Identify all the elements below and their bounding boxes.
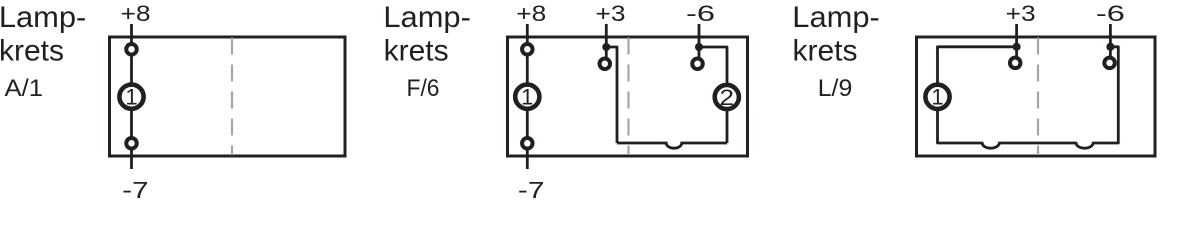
wire lamp 2 bottom riser: [726, 111, 729, 144]
svg-text:+3: +3: [596, 1, 626, 26]
wire +8 to -7 vertical: [526, 24, 529, 169]
svg-text:krets: krets: [793, 35, 858, 68]
svg-text:-7: -7: [122, 177, 149, 203]
lamp 1 (circuit A/1): [119, 85, 143, 110]
junction dot +3: [1013, 43, 1021, 51]
terminal ring -7: [522, 138, 533, 149]
wire lamp 1 loop top (to +3 dot): [938, 47, 1017, 84]
wire +3 to lamp 2 (down leg): [606, 47, 617, 143]
terminal ring +3: [1010, 58, 1021, 69]
box outline (circuit board A/1): [110, 37, 346, 156]
svg-text:Lamp-: Lamp-: [792, 1, 880, 34]
svg-text:krets: krets: [384, 35, 449, 68]
junction dot -6: [695, 43, 703, 51]
lamp 2 (circuit F/6): [715, 85, 739, 110]
terminal ring +3: [600, 59, 611, 70]
svg-text:2: 2: [720, 85, 735, 110]
svg-text:krets: krets: [0, 35, 64, 68]
wire -6 stub: [698, 24, 701, 58]
svg-text:F/6: F/6: [407, 75, 440, 102]
dashed divider (board L/9 midline): [1037, 38, 1039, 156]
svg-text:+3: +3: [1006, 1, 1036, 26]
lamp 1 (circuit F/6): [515, 85, 539, 110]
junction dot +3: [602, 43, 610, 51]
svg-text:1: 1: [125, 85, 137, 110]
terminal ring -7: [126, 138, 137, 149]
svg-text:+8: +8: [516, 1, 546, 26]
wire -6 stub: [1109, 24, 1112, 57]
wire +3 stub: [1015, 24, 1018, 57]
wire -6 to lamp 2 top: [699, 47, 727, 84]
junction dot -6: [1106, 43, 1114, 51]
box outline (circuit board F/6): [508, 37, 748, 156]
svg-text:L/9: L/9: [818, 75, 853, 102]
svg-text:Lamp-: Lamp-: [0, 1, 86, 34]
wire bottom run with dip: [617, 143, 727, 148]
svg-text:A/1: A/1: [5, 75, 44, 102]
terminal ring -6: [1104, 58, 1115, 69]
dashed divider (board A/1 midline): [231, 38, 233, 156]
terminal ring +8: [126, 44, 137, 55]
svg-text:1: 1: [931, 85, 943, 110]
svg-text:-7: -7: [518, 177, 545, 203]
wire +3 stub: [605, 24, 608, 58]
svg-text:Lamp-: Lamp-: [383, 1, 471, 34]
svg-text:1: 1: [521, 85, 533, 110]
box outline (circuit board L/9): [917, 37, 1156, 156]
wire +8 to -7 vertical: [130, 24, 133, 169]
svg-text:+8: +8: [121, 1, 151, 26]
terminal ring -6: [692, 59, 703, 70]
lamp 1 (circuit L/9): [925, 85, 949, 110]
terminal ring +8: [522, 44, 533, 55]
svg-text:-6: -6: [686, 1, 715, 26]
svg-text:-6: -6: [1096, 1, 1125, 26]
wire lamp 1 loop bottom with dips: [938, 47, 1119, 148]
dashed divider (board F/6 midline): [627, 38, 629, 156]
